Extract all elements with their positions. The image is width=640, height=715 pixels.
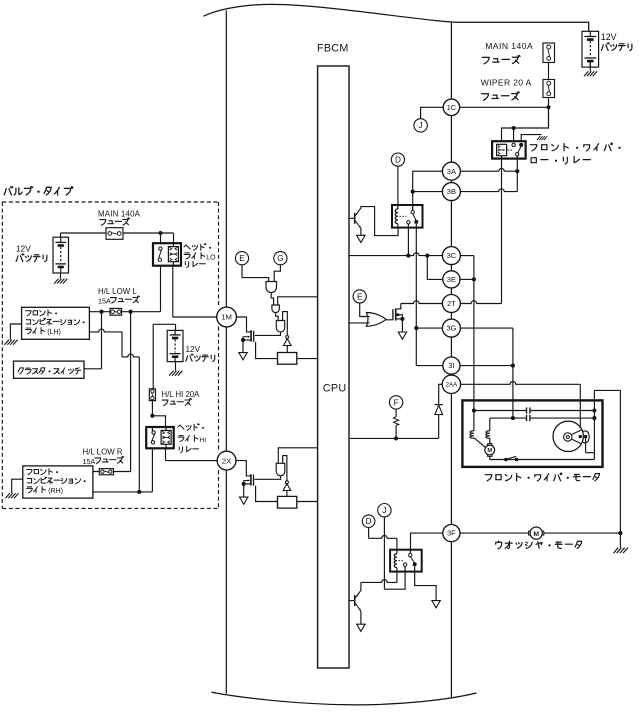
svg-text:D: D bbox=[395, 156, 401, 165]
svg-text:M: M bbox=[487, 448, 492, 454]
svg-text:WIPER 20 A: WIPER 20 A bbox=[481, 78, 532, 88]
svg-text:1M: 1M bbox=[221, 313, 232, 322]
svg-text:J: J bbox=[419, 121, 423, 130]
svg-text:3F: 3F bbox=[447, 529, 456, 538]
svg-text:H/L HI 20A: H/L HI 20A bbox=[162, 390, 201, 399]
svg-text:MAIN 140A: MAIN 140A bbox=[98, 209, 141, 218]
svg-text:E: E bbox=[239, 254, 245, 263]
svg-text:15A: 15A bbox=[98, 297, 111, 305]
svg-text:H/L LOW R: H/L LOW R bbox=[83, 448, 123, 457]
svg-text:HI: HI bbox=[199, 437, 206, 444]
svg-text:3A: 3A bbox=[447, 167, 456, 176]
svg-text:F: F bbox=[394, 398, 399, 407]
svg-text:CPU: CPU bbox=[323, 382, 347, 394]
svg-text:2T: 2T bbox=[447, 299, 456, 308]
svg-text:3B: 3B bbox=[447, 187, 456, 196]
svg-text:3E: 3E bbox=[447, 275, 456, 284]
svg-text:3C: 3C bbox=[447, 251, 457, 260]
svg-text:M: M bbox=[533, 531, 539, 538]
svg-text:12V: 12V bbox=[16, 243, 31, 253]
svg-text:1C: 1C bbox=[447, 103, 457, 112]
svg-text:15A: 15A bbox=[83, 458, 96, 466]
svg-text:3G: 3G bbox=[446, 324, 456, 333]
svg-text:2X: 2X bbox=[222, 456, 231, 465]
svg-text:E: E bbox=[357, 292, 363, 301]
svg-text:(RH): (RH) bbox=[48, 488, 63, 495]
svg-text:12V: 12V bbox=[601, 32, 617, 42]
svg-text:G: G bbox=[277, 254, 283, 263]
svg-text:J: J bbox=[382, 506, 386, 515]
svg-text:H/L LOW L: H/L LOW L bbox=[98, 287, 137, 296]
svg-text:D: D bbox=[366, 517, 372, 526]
svg-text:2AA: 2AA bbox=[446, 381, 458, 388]
svg-text:FBCM: FBCM bbox=[317, 43, 349, 55]
svg-text:(LH): (LH) bbox=[47, 329, 61, 336]
svg-text:LO: LO bbox=[206, 254, 216, 261]
svg-text:12V: 12V bbox=[186, 345, 201, 354]
svg-text:3I: 3I bbox=[448, 361, 454, 370]
svg-text:MAIN 140A: MAIN 140A bbox=[485, 41, 533, 51]
